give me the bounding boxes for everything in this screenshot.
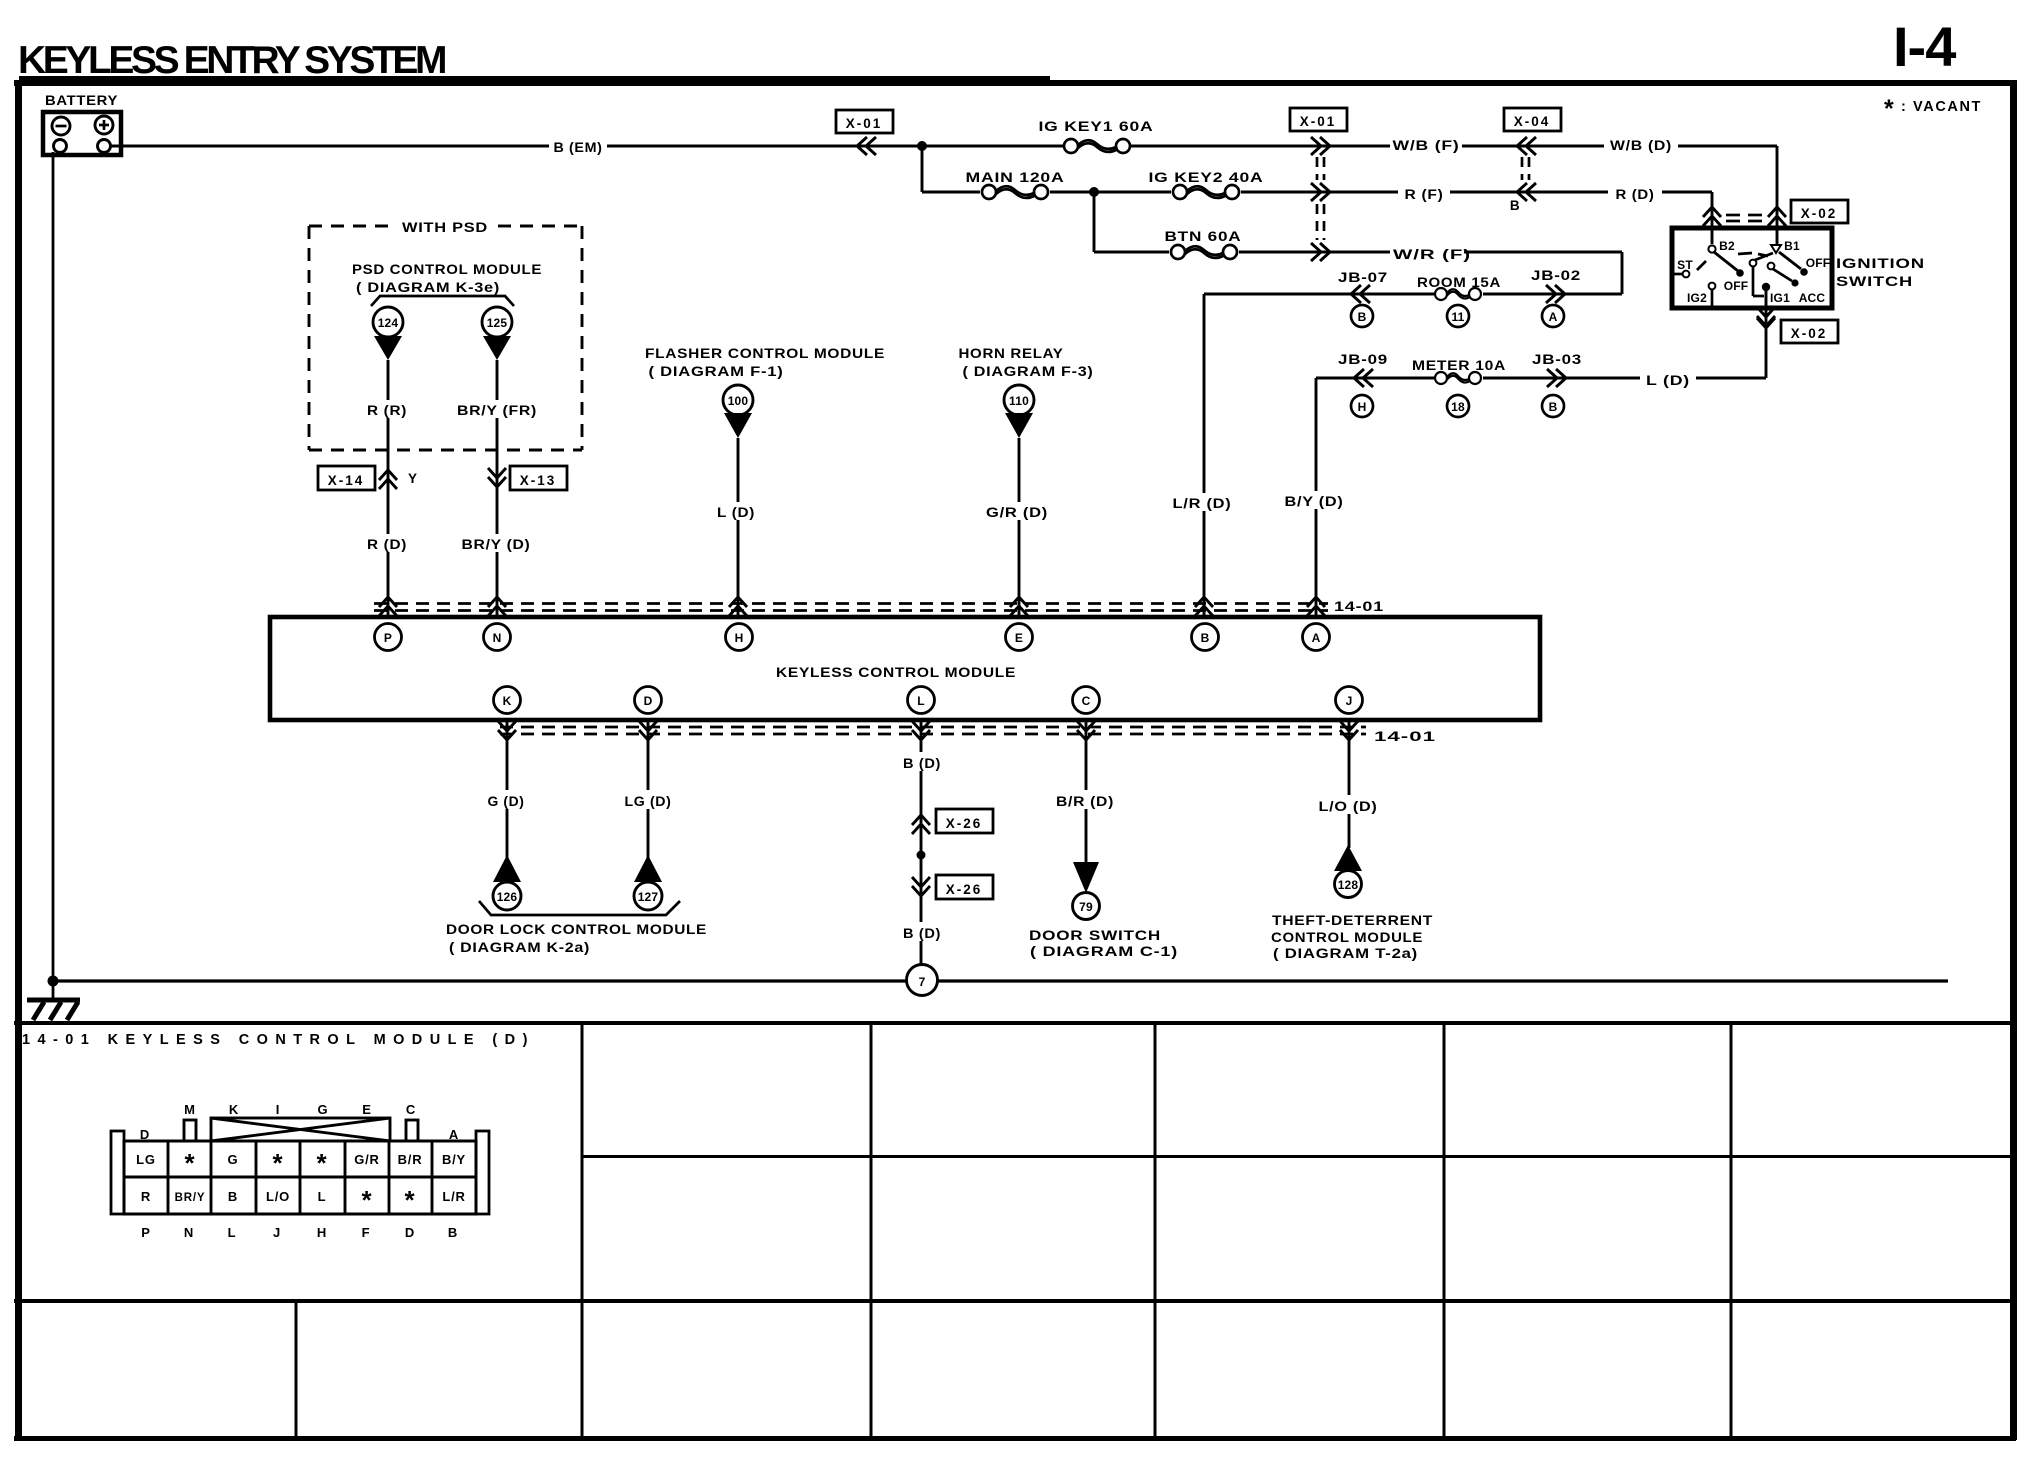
fuse IG KEY2 40A	[1149, 170, 1264, 199]
svg-text:JB-09: JB-09	[1338, 352, 1388, 367]
svg-text:R: R	[141, 1189, 151, 1204]
fuse BTN 60A	[1165, 229, 1242, 259]
svg-text:OFF: OFF	[1806, 256, 1831, 270]
label L/O(D)	[1314, 795, 1382, 814]
svg-text:LG (D): LG (D)	[625, 794, 672, 809]
fuse IG KEY1 60A	[1039, 119, 1154, 153]
connector JB-07	[1338, 270, 1388, 327]
svg-text:L (D): L (D)	[717, 505, 755, 520]
label W/B(D)	[1604, 134, 1678, 153]
pin P	[375, 624, 402, 651]
svg-text:126: 126	[497, 890, 518, 904]
svg-text:11: 11	[1451, 310, 1464, 324]
label R(D) at pin P wire	[363, 534, 413, 552]
wire BR/Y(FR)/BR/Y(D) to pin N	[496, 360, 499, 617]
WITH PSD dashed box	[309, 226, 582, 450]
connector cell dividers	[168, 1141, 432, 1214]
svg-text:X-14: X-14	[328, 473, 365, 488]
svg-text:A: A	[1549, 310, 1558, 324]
svg-text:BR/Y (FR): BR/Y (FR)	[457, 403, 537, 418]
connector 110	[1004, 385, 1034, 438]
pin H	[726, 624, 753, 651]
svg-text:B: B	[1201, 631, 1210, 645]
bracket over PSD connectors	[371, 296, 514, 306]
svg-text:D: D	[140, 1127, 150, 1142]
svg-text:LG: LG	[136, 1152, 156, 1167]
wire JB-09 row	[1316, 308, 1766, 378]
svg-text:X-02: X-02	[1791, 326, 1828, 341]
svg-text:IG KEY2 40A: IG KEY2 40A	[1149, 170, 1264, 185]
svg-text:BR/Y (D): BR/Y (D)	[462, 537, 531, 552]
svg-text:BTN 60A: BTN 60A	[1165, 229, 1242, 244]
svg-text:B: B	[1358, 310, 1367, 324]
connector JB-02	[1531, 268, 1581, 327]
svg-text:110: 110	[1009, 394, 1029, 408]
connector JB-03	[1532, 352, 1582, 417]
dashed connector line X-01 column	[1317, 157, 1324, 240]
svg-text:X-01: X-01	[846, 116, 883, 131]
svg-text:B/R: B/R	[398, 1152, 423, 1167]
pin letters top	[140, 1102, 459, 1142]
wire G/R(D) to pin E	[1018, 438, 1021, 617]
connector X-01 (battery side)	[836, 110, 893, 133]
ground bus wire	[53, 979, 1948, 982]
connector X-26 (upper)	[912, 809, 993, 834]
svg-text:METER 10A: METER 10A	[1412, 358, 1506, 373]
svg-text:B: B	[448, 1225, 458, 1240]
connector 127	[634, 855, 662, 910]
svg-text:14-01: 14-01	[1374, 729, 1436, 744]
table top line	[14, 1021, 2016, 1025]
svg-text:*: *	[317, 1148, 328, 1178]
svg-text:KEYLESS ENTRY SYSTEM: KEYLESS ENTRY SYSTEM	[18, 39, 445, 82]
label W/R(F)	[1390, 243, 1471, 262]
svg-text:*: *	[362, 1185, 373, 1215]
table vertical dividers	[296, 1023, 1731, 1438]
svg-text:Y: Y	[408, 471, 418, 486]
label R(F)	[1398, 183, 1450, 202]
svg-text:B2: B2	[1719, 239, 1735, 253]
wire R(F) row	[922, 192, 1712, 244]
pin B	[1192, 624, 1219, 651]
wire L(D) to pin H	[737, 438, 740, 617]
wire LG(D) from pin D	[647, 720, 650, 858]
fuse ROOM 15A	[1417, 275, 1501, 327]
keyless control module box	[270, 617, 1540, 720]
label R(D)	[1608, 183, 1662, 202]
svg-text:BR/Y: BR/Y	[175, 1192, 206, 1204]
svg-text:KEYLESS CONTROL MODULE: KEYLESS CONTROL MODULE	[776, 665, 1016, 680]
svg-text:7: 7	[919, 975, 926, 989]
svg-text:( DIAGRAM F-3): ( DIAGRAM F-3)	[963, 364, 1094, 379]
svg-text:SWITCH: SWITCH	[1836, 274, 1913, 289]
fuse MAIN 120A	[966, 170, 1065, 199]
pin letters bottom	[141, 1225, 458, 1240]
label 14-01 top	[1334, 599, 1384, 614]
svg-text:N: N	[493, 631, 502, 645]
svg-text:WITH PSD: WITH PSD	[402, 220, 488, 235]
label G/R(D) at pin E wire	[985, 502, 1053, 520]
PSD control module label	[352, 262, 542, 295]
horn relay label	[959, 346, 1094, 379]
connector X-26 (lower)	[912, 875, 993, 899]
svg-text:X-01: X-01	[1300, 114, 1337, 129]
connector 79	[1073, 862, 1100, 920]
table middle line	[582, 1155, 2013, 1158]
svg-text:B/R (D): B/R (D)	[1056, 794, 1114, 809]
connector key M	[184, 1120, 196, 1141]
wire B(EM) battery to ignition feed	[110, 146, 1777, 244]
svg-text:G/R (D): G/R (D)	[986, 505, 1048, 520]
svg-text:L: L	[318, 1189, 327, 1204]
svg-text:D: D	[405, 1225, 415, 1240]
svg-text:L: L	[228, 1225, 237, 1240]
svg-text:I: I	[276, 1102, 280, 1117]
svg-text:K: K	[229, 1102, 239, 1117]
svg-text:B/Y (D): B/Y (D)	[1285, 494, 1344, 509]
wire G(D) from pin K	[506, 720, 509, 858]
label B at X-04	[1510, 198, 1520, 213]
svg-text:*: *	[1884, 95, 1894, 123]
connector 125	[482, 307, 512, 360]
svg-text:B (EM): B (EM)	[554, 140, 603, 155]
svg-text:OFF: OFF	[1724, 279, 1749, 293]
svg-text:W/B (D): W/B (D)	[1610, 138, 1672, 153]
pin K	[494, 687, 521, 714]
svg-text:L: L	[917, 694, 925, 708]
svg-text:14-01 KEYLESS CONTROL MODULE (: 14-01 KEYLESS CONTROL MODULE (D)	[22, 1032, 529, 1048]
14-01 connector pinout drawing	[111, 1102, 489, 1240]
connector 126	[493, 855, 521, 910]
label BR/Y(FR)	[455, 400, 541, 418]
connector key C	[406, 1120, 418, 1141]
table lower line	[14, 1299, 2016, 1303]
label R(R)	[363, 400, 413, 418]
svg-text:L/R: L/R	[442, 1189, 465, 1204]
connector right ear	[476, 1131, 489, 1214]
svg-text:( DIAGRAM K-3e): ( DIAGRAM K-3e)	[356, 280, 500, 295]
junction node MAIN/BTN	[1089, 187, 1099, 197]
svg-text:CONTROL MODULE: CONTROL MODULE	[1271, 930, 1423, 945]
title underline	[19, 76, 1050, 83]
wire B/Y(D) vertical to pin A	[1315, 378, 1318, 617]
chevrons X-01 column	[1311, 137, 1330, 261]
top bus chevrons	[379, 597, 1325, 616]
svg-text:J: J	[1346, 694, 1353, 708]
bracket under door lock connectors	[479, 901, 680, 915]
connector JB-09	[1338, 352, 1388, 417]
note *: VACANT	[1884, 95, 1982, 123]
svg-text:E: E	[1015, 631, 1023, 645]
ground connector 7	[907, 965, 938, 996]
svg-text:MAIN 120A: MAIN 120A	[966, 170, 1065, 185]
svg-text:18: 18	[1451, 400, 1465, 414]
pin D	[635, 687, 662, 714]
label B(D) upper	[896, 752, 946, 771]
wire B/R(D) from pin C	[1085, 720, 1088, 864]
bottom bus chevrons	[498, 721, 1358, 740]
connector left ear	[111, 1131, 124, 1214]
svg-text:X-02: X-02	[1801, 206, 1838, 221]
svg-text:JB-03: JB-03	[1532, 352, 1582, 367]
label G(D)	[482, 790, 532, 809]
pin E	[1006, 624, 1033, 651]
svg-text:*: *	[405, 1185, 416, 1215]
label BR/Y(D)	[455, 534, 537, 552]
svg-text:127: 127	[638, 890, 659, 904]
svg-text:H: H	[735, 631, 744, 645]
svg-text:G: G	[318, 1102, 329, 1117]
label L(D) at pin H wire	[712, 502, 764, 520]
svg-text:DOOR LOCK CONTROL MODULE: DOOR LOCK CONTROL MODULE	[446, 922, 707, 937]
svg-text:125: 125	[487, 316, 508, 330]
wire W/R(F) row	[1094, 252, 1622, 294]
page number I-4	[1893, 15, 1956, 78]
dashed connector line X-04 column	[1522, 157, 1529, 180]
svg-text:L/R (D): L/R (D)	[1173, 496, 1232, 511]
svg-text:X-13: X-13	[520, 473, 557, 488]
theft-deterrent control module label	[1271, 913, 1433, 961]
svg-text:R (D): R (D)	[367, 537, 407, 552]
title KEYLESS ENTRY SYSTEM	[18, 39, 445, 82]
svg-text:I-4: I-4	[1893, 15, 1956, 78]
ignition switch box	[1672, 228, 1925, 308]
svg-text:( DIAGRAM K-2a): ( DIAGRAM K-2a)	[449, 940, 590, 955]
wire L/R(D) vertical to pin B	[1203, 294, 1206, 617]
battery	[43, 93, 121, 155]
svg-text:( DIAGRAM T-2a): ( DIAGRAM T-2a)	[1273, 946, 1418, 961]
label L(D)	[1640, 369, 1696, 388]
svg-text:R (F): R (F)	[1405, 187, 1444, 202]
svg-text:K: K	[503, 694, 512, 708]
svg-text:DOOR SWITCH: DOOR SWITCH	[1029, 928, 1161, 943]
table caption 14-01 KEYLESS CONTROL MODULE (D)	[22, 1032, 529, 1048]
svg-text:IG2: IG2	[1687, 291, 1707, 305]
svg-text:M: M	[184, 1102, 196, 1117]
connector 124	[373, 307, 403, 360]
wire BTN branch vertical	[1093, 192, 1096, 252]
svg-text:P: P	[141, 1225, 150, 1240]
svg-text:R (D): R (D)	[1616, 187, 1655, 202]
svg-text:H: H	[317, 1225, 327, 1240]
label W/B(F)	[1390, 134, 1462, 153]
label 14-01 bottom	[1374, 729, 1436, 744]
svg-text:( DIAGRAM C-1): ( DIAGRAM C-1)	[1030, 944, 1178, 959]
label B(D) lower	[896, 922, 946, 941]
svg-text:X-26: X-26	[946, 816, 983, 831]
label B/R(D)	[1052, 790, 1120, 809]
connector X-01 (harness)	[1290, 108, 1347, 131]
wire JB-07 row	[1204, 293, 1622, 296]
svg-text:: VACANT: : VACANT	[1901, 99, 1982, 115]
svg-text:C: C	[1082, 694, 1091, 708]
svg-text:128: 128	[1338, 878, 1359, 892]
connector row divider	[124, 1176, 476, 1179]
pin L	[908, 687, 935, 714]
connector X-04	[1504, 108, 1561, 131]
connector keyway with X	[211, 1118, 390, 1141]
svg-text:G (D): G (D)	[488, 794, 525, 809]
svg-text:*: *	[273, 1148, 284, 1178]
svg-text:THEFT-DETERRENT: THEFT-DETERRENT	[1272, 913, 1433, 928]
svg-text:HORN RELAY: HORN RELAY	[959, 346, 1064, 361]
ground symbol	[27, 1000, 80, 1020]
svg-text:X-04: X-04	[1514, 114, 1551, 129]
wire battery negative to ground	[52, 152, 55, 1000]
connector 100	[723, 385, 753, 438]
connector 128	[1334, 845, 1362, 898]
svg-text:G: G	[228, 1152, 239, 1167]
top harness bus 14-01 dashed	[374, 604, 1328, 611]
svg-text:D: D	[644, 694, 653, 708]
door switch label	[1029, 928, 1178, 959]
connector X-02 (top)	[1703, 200, 1848, 226]
pin N	[484, 624, 511, 651]
flasher control module label	[645, 346, 885, 379]
svg-text:IGNITION: IGNITION	[1836, 256, 1925, 271]
svg-text:FLASHER CONTROL MODULE: FLASHER CONTROL MODULE	[645, 346, 885, 361]
wire B(D) from pin L to ground	[920, 720, 923, 966]
ignition switch internals	[1672, 239, 1830, 308]
svg-text:( DIAGRAM F-1): ( DIAGRAM F-1)	[649, 364, 784, 379]
svg-text:H: H	[1358, 400, 1367, 414]
svg-text:JB-07: JB-07	[1338, 270, 1388, 285]
svg-text:124: 124	[378, 316, 399, 330]
svg-text:79: 79	[1079, 900, 1093, 914]
svg-text:ROOM 15A: ROOM 15A	[1417, 275, 1501, 290]
pin C	[1073, 687, 1100, 714]
svg-text:B1: B1	[1784, 239, 1800, 253]
wire L/O(D) from pin J	[1348, 720, 1351, 848]
svg-text:BATTERY: BATTERY	[45, 93, 118, 108]
wire R(R)/R(D) to pin P	[387, 360, 390, 617]
label B/Y(D) at pin A wire	[1282, 491, 1350, 509]
wire colors row 1	[136, 1148, 466, 1178]
svg-text:E: E	[362, 1102, 371, 1117]
svg-text:C: C	[406, 1102, 416, 1117]
svg-text:B: B	[228, 1189, 238, 1204]
svg-text:B (D): B (D)	[903, 926, 941, 941]
junction node ground	[48, 976, 59, 987]
svg-text:W/R (F): W/R (F)	[1393, 247, 1471, 262]
connector body	[124, 1141, 476, 1214]
svg-text:B (D): B (D)	[903, 756, 941, 771]
wire colors row 2	[141, 1185, 466, 1215]
svg-text:A: A	[449, 1127, 459, 1142]
label WITH PSD	[402, 220, 488, 235]
svg-text:ACC: ACC	[1799, 291, 1826, 305]
svg-text:R (R): R (R)	[367, 403, 407, 418]
svg-text:B/Y: B/Y	[442, 1152, 466, 1167]
svg-text:J: J	[273, 1225, 281, 1240]
svg-text:14-01: 14-01	[1334, 599, 1384, 614]
svg-text:B: B	[1549, 400, 1558, 414]
svg-text:JB-02: JB-02	[1531, 268, 1581, 283]
fuse METER 10A	[1412, 358, 1506, 417]
svg-text:P: P	[384, 631, 392, 645]
svg-text:G/R: G/R	[354, 1152, 380, 1167]
wire MAIN branch vertical	[921, 146, 924, 192]
svg-text:L (D): L (D)	[1646, 373, 1690, 388]
connector X-02 (bottom)	[1757, 307, 1838, 343]
svg-text:A: A	[1312, 631, 1321, 645]
svg-text:X-26: X-26	[946, 882, 983, 897]
label B(EM)	[549, 136, 607, 155]
svg-text:L/O (D): L/O (D)	[1319, 799, 1378, 814]
svg-text:W/B (F): W/B (F)	[1393, 138, 1460, 153]
pin A	[1303, 624, 1330, 651]
door lock control module label	[446, 922, 707, 955]
junction node X-26	[917, 851, 926, 860]
svg-text:100: 100	[728, 394, 749, 408]
svg-text:L/O: L/O	[266, 1189, 290, 1204]
svg-text:PSD CONTROL MODULE: PSD CONTROL MODULE	[352, 262, 542, 277]
chevron X-01 on B(EM)	[857, 137, 876, 155]
connector X-14	[318, 466, 418, 490]
svg-text:*: *	[185, 1148, 196, 1178]
svg-text:F: F	[362, 1225, 371, 1240]
svg-text:N: N	[184, 1225, 194, 1240]
label LG(D)	[618, 790, 678, 809]
svg-text:IG KEY1 60A: IG KEY1 60A	[1039, 119, 1154, 134]
chevrons X-04 column	[1517, 137, 1536, 201]
junction node B(EM)/MAIN	[917, 141, 927, 151]
bottom harness bus 14-01 dashed	[500, 727, 1366, 734]
svg-text:B: B	[1510, 198, 1520, 213]
pin J	[1336, 687, 1363, 714]
connector X-13	[488, 466, 567, 490]
label L/R(D) at pin B wire	[1170, 493, 1238, 511]
svg-text:IG1: IG1	[1770, 291, 1790, 305]
